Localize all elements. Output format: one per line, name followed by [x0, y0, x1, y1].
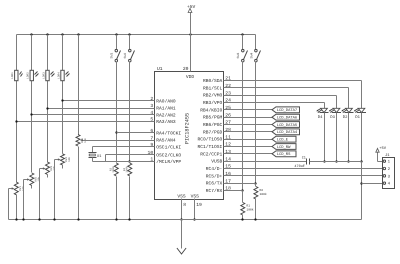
wire VDD pin 20 [183, 35, 191, 73]
svg-text:RC4/D-: RC4/D- [206, 166, 223, 172]
LED D3 [329, 108, 341, 120]
wire R3 to ground rail [116, 177, 118, 220]
svg-text:C1: C1 [302, 156, 306, 161]
power flag +5V (connector) [376, 146, 387, 162]
photoresistor LDR2 [27, 70, 39, 80]
wire RA2 to RV2 column [30, 113, 154, 115]
svg-text:LDR3: LDR3 [42, 72, 45, 79]
resistor R2 [254, 184, 267, 220]
net label LCD_RS [224, 151, 297, 157]
svg-text:RB7/PGD: RB7/PGD [203, 129, 223, 135]
wire sensor column 2 [31, 35, 33, 173]
svg-text:VDD: VDD [186, 74, 195, 80]
wire RB3 to LED D4 [224, 103, 325, 109]
wire LED D4 cathode [323, 113, 325, 163]
svg-text:2: 2 [150, 96, 153, 102]
svg-text:U1: U1 [157, 66, 163, 72]
svg-text:22: 22 [225, 83, 231, 89]
photoresistor LDR3 [42, 70, 54, 80]
svg-text:RC6/TX: RC6/TX [206, 181, 223, 187]
svg-text:LCD_DATA6: LCD_DATA6 [277, 116, 298, 121]
resistor R1 [241, 191, 254, 220]
svg-text:VUSB: VUSB [211, 159, 222, 165]
wire SW2 to MCLR and R4 [128, 62, 130, 163]
connector J1 [383, 153, 395, 189]
svg-text:D4: D4 [318, 115, 323, 120]
wire RB2 to LED D3 [224, 96, 337, 109]
svg-text:SW3: SW3 [236, 53, 240, 59]
wire LED D2 cathode [347, 113, 349, 163]
potentiometer RV2 [30, 173, 41, 186]
crystal X1 [89, 153, 103, 160]
svg-text:6: 6 [150, 128, 153, 134]
resistor R4 [123, 163, 132, 176]
wire RC5/D+ to J1 pin 3 [224, 175, 383, 177]
svg-text:100k: 100k [260, 192, 267, 196]
svg-text:9: 9 [150, 142, 153, 148]
svg-text:25: 25 [225, 105, 231, 111]
svg-text:RC5/D+: RC5/D+ [206, 173, 223, 179]
switch SW4 [249, 35, 260, 62]
svg-text:RA4/T0CKI: RA4/T0CKI [156, 131, 181, 137]
wire OSC1 to crystal [93, 147, 155, 153]
wire R4 to ground rail [129, 177, 131, 220]
wire RA1 to RV3 column [46, 107, 154, 109]
svg-text:LCD_DATA5: LCD_DATA5 [277, 123, 298, 128]
wire LED D1 cathode [360, 113, 362, 163]
wire ground bottom rail [9, 219, 362, 221]
wire pot RV4 bottom stub [62, 165, 64, 169]
svg-text:RA5/AN4: RA5/AN4 [156, 138, 176, 144]
svg-text:RB0/SDA: RB0/SDA [203, 78, 223, 84]
wire VSS pin 19 [193, 199, 202, 221]
svg-text:RA3/AN3: RA3/AN3 [156, 119, 176, 125]
wire RC4/D- to J1 pin 2 [224, 168, 383, 170]
wire pot RV2 bottom stub [31, 186, 33, 189]
wire RA0 to RV4 column [61, 99, 154, 101]
junction dots on +5V rail [30, 33, 243, 35]
junction dots on ground rail [15, 218, 256, 220]
wire wiper of RV3 to ground rail [40, 167, 46, 219]
wire sensor column 4 [62, 35, 64, 154]
net label LCD_DATA7 [224, 107, 300, 113]
svg-text:RB6/PGC: RB6/PGC [203, 122, 223, 128]
svg-text:/MCLR/VPP: /MCLR/VPP [156, 159, 181, 165]
svg-text:VSS: VSS [191, 193, 200, 199]
svg-text:X1: X1 [97, 154, 102, 159]
svg-text:10k: 10k [68, 157, 71, 162]
wire pot RV1 bottom to ground rail [16, 195, 18, 220]
wire RB0 to LED D1 [224, 81, 362, 109]
wire wiper of RV1 to ground rail [9, 187, 15, 219]
wire SW1 to RA4 and R3 [115, 62, 117, 163]
wire RA4 to SW1 [117, 132, 155, 134]
svg-text:RC7/RX: RC7/RX [206, 188, 223, 194]
wire RA3 to RV1 column [15, 120, 154, 122]
wire VUSB to C1 [224, 161, 307, 163]
wire RA5 to RV5 wiper [80, 139, 155, 141]
net label LCD_RW [224, 144, 297, 150]
svg-text:D1: D1 [355, 115, 360, 120]
wire VSS pin 8 [180, 199, 186, 221]
svg-text:PIC18F2455: PIC18F2455 [185, 113, 191, 144]
potentiometer RV4 [61, 154, 72, 165]
wire wiper of RV4 to ground rail [55, 158, 61, 219]
net label LCD_DATA6 [224, 114, 300, 120]
svg-text:13: 13 [225, 149, 231, 155]
svg-text:RA2/AN2: RA2/AN2 [156, 112, 176, 118]
wire sensor column 5 [78, 35, 80, 135]
svg-text:LDR2: LDR2 [27, 72, 30, 79]
svg-text:100k: 100k [112, 166, 115, 173]
svg-text:16: 16 [225, 171, 231, 177]
wire sensor column 3 [47, 35, 49, 163]
wire RB1 to LED D2 [224, 88, 349, 109]
svg-text:LCD_RS: LCD_RS [277, 152, 291, 157]
LED D1 [354, 108, 366, 120]
svg-text:LDR1: LDR1 [11, 72, 14, 79]
potentiometer RV5 [76, 135, 87, 147]
svg-text:SW1: SW1 [110, 53, 114, 59]
wire wiper of RV2 to ground rail [24, 178, 30, 219]
svg-text:19: 19 [196, 202, 202, 208]
switch SW3 [236, 35, 247, 62]
svg-text:D2: D2 [343, 115, 348, 120]
svg-text:10: 10 [148, 150, 154, 156]
net label LCD_DATA4 [224, 129, 300, 135]
svg-text:RB1/SCL: RB1/SCL [203, 85, 223, 91]
wire C1 to LED cathode rail and ground drop [310, 162, 363, 220]
wire LED D3 cathode [335, 113, 337, 163]
net label LCD_DATA5 [224, 122, 300, 128]
resistor R3 [109, 163, 118, 176]
svg-text:RA0/AN0: RA0/AN0 [156, 99, 176, 105]
ground symbol [177, 220, 186, 255]
svg-text:8: 8 [183, 202, 186, 208]
svg-text:LCD_DATA7: LCD_DATA7 [277, 108, 298, 113]
photoresistor LDR1 [11, 70, 22, 80]
svg-text:100k: 100k [125, 166, 128, 173]
wire SW3 to RX net with junction [241, 62, 243, 192]
photoresistor LDR4 [57, 70, 69, 80]
wire sensor column 1 [16, 35, 18, 183]
svg-text:R1: R1 [246, 205, 250, 208]
net label LCD_E [224, 136, 297, 142]
wire SW4 to TX net with junction [254, 62, 256, 185]
svg-text:20: 20 [183, 66, 189, 72]
svg-text:+5V: +5V [379, 146, 387, 151]
wire J1 pin 4 to ground [362, 183, 383, 185]
svg-text:OSC2/CLKO: OSC2/CLKO [156, 153, 181, 159]
svg-text:D3: D3 [330, 115, 335, 120]
svg-text:R2: R2 [260, 189, 264, 192]
switch SW1 [110, 35, 121, 62]
switch SW2 [123, 35, 134, 62]
svg-text:RB4/KBI0: RB4/KBI0 [200, 107, 222, 113]
svg-text:RA1/AN1: RA1/AN1 [156, 106, 176, 112]
LED D4 [316, 108, 328, 120]
svg-text:OSC1/CLKI: OSC1/CLKI [156, 145, 181, 151]
potentiometer RV3 [46, 162, 57, 175]
svg-text:RC0/T1OSO: RC0/T1OSO [197, 137, 222, 143]
svg-text:LCD_RW: LCD_RW [277, 145, 291, 150]
wire pot RV3 bottom stub [47, 175, 49, 178]
svg-text:SW4: SW4 [249, 53, 253, 59]
svg-text:J1: J1 [385, 153, 390, 158]
wire RC6/TX [224, 183, 256, 185]
svg-text:RB2/VMO: RB2/VMO [203, 93, 223, 99]
LED D2 [341, 108, 353, 120]
wire +5V top rail [17, 34, 256, 36]
op-amp U1 PIC18F2455 body [155, 66, 224, 199]
svg-text:LCD_E: LCD_E [277, 138, 289, 143]
wire RC7/RX [224, 190, 243, 192]
wire pot RV5 bottom to ground rail [78, 147, 80, 220]
pin names and numbers left side [148, 96, 182, 165]
svg-text:RC2/CCP1: RC2/CCP1 [200, 151, 222, 157]
svg-text:100k: 100k [246, 208, 253, 212]
pin names and numbers right side [197, 76, 231, 194]
svg-text:28: 28 [225, 127, 231, 133]
svg-text:RC1/T1OSI: RC1/T1OSI [197, 144, 222, 150]
wire MCLR [93, 161, 155, 163]
svg-text:+5V: +5V [187, 4, 196, 10]
svg-text:LCD_DATA4: LCD_DATA4 [277, 130, 298, 135]
svg-text:RB3/VPO: RB3/VPO [203, 100, 223, 106]
svg-text:SW2: SW2 [123, 53, 127, 59]
potentiometer RV1 [14, 182, 25, 195]
svg-text:VSS: VSS [177, 193, 186, 199]
svg-text:RB5/PGM: RB5/PGM [203, 115, 223, 121]
capacitor C1 [294, 156, 309, 169]
power flag +5V (top) [187, 4, 196, 35]
svg-text:LDR4: LDR4 [57, 72, 60, 79]
wire crystal bottom to OSC2 [93, 155, 155, 162]
